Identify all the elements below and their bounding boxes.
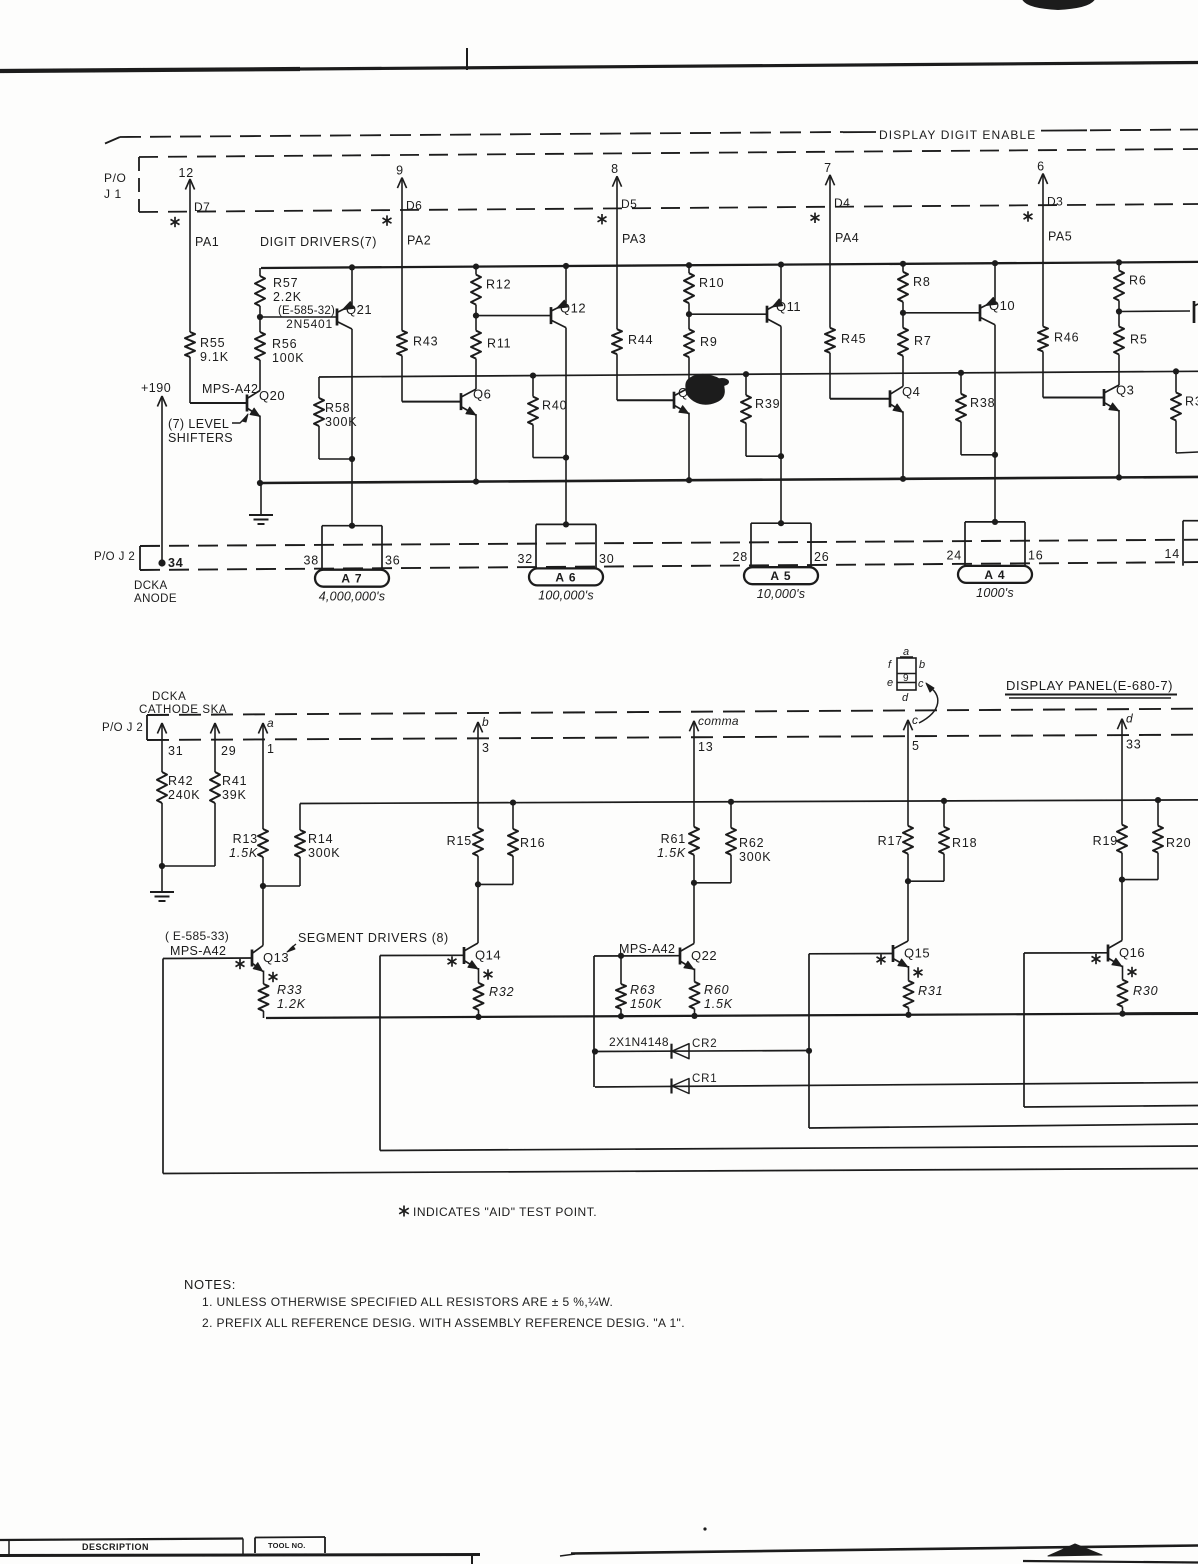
svg-text:100K: 100K	[272, 351, 304, 365]
svg-text:c: c	[912, 713, 918, 727]
svg-text:a: a	[267, 716, 274, 730]
svg-text:33: 33	[1126, 738, 1142, 752]
svg-text:300K: 300K	[739, 850, 771, 864]
svg-text:TOOL NO.: TOOL NO.	[268, 1541, 306, 1550]
svg-text:INDICATES "AID" TEST POINT.: INDICATES "AID" TEST POINT.	[413, 1205, 597, 1219]
svg-text:5: 5	[912, 739, 920, 753]
svg-text:PA3: PA3	[622, 232, 646, 246]
svg-text:36: 36	[385, 553, 401, 567]
svg-text:PA1: PA1	[195, 235, 219, 249]
svg-text:R17: R17	[878, 834, 903, 848]
svg-text:R37: R37	[1185, 395, 1198, 409]
svg-text:R15: R15	[447, 834, 472, 848]
svg-text:P/O J 2: P/O J 2	[102, 722, 143, 734]
svg-text:1: 1	[267, 742, 275, 756]
svg-text:Q4: Q4	[902, 384, 920, 399]
svg-text:13: 13	[698, 740, 714, 754]
svg-text:R56: R56	[272, 337, 297, 351]
svg-text:Q11: Q11	[776, 299, 801, 314]
svg-text:R8: R8	[913, 275, 931, 289]
svg-text:1000's: 1000's	[976, 586, 1014, 600]
svg-text:J 1: J 1	[104, 187, 122, 201]
svg-text:DISPLAY PANEL(E-680-7): DISPLAY PANEL(E-680-7)	[1006, 678, 1173, 693]
svg-text:A 6: A 6	[555, 570, 576, 584]
svg-text:Q13: Q13	[263, 950, 289, 965]
svg-text:P/O J 2: P/O J 2	[94, 551, 135, 563]
svg-text:Q21: Q21	[346, 302, 372, 317]
svg-text:c: c	[918, 678, 924, 690]
svg-text:SHIFTERS: SHIFTERS	[168, 431, 233, 445]
svg-text:R55: R55	[200, 336, 225, 350]
svg-text:R16: R16	[520, 836, 545, 850]
svg-text:7: 7	[824, 161, 832, 175]
svg-text:2X1N4148: 2X1N4148	[609, 1035, 669, 1049]
svg-text:12: 12	[178, 166, 194, 180]
svg-text:D4: D4	[834, 196, 850, 210]
svg-text:34: 34	[168, 556, 184, 570]
svg-text:16: 16	[1028, 549, 1044, 563]
svg-text:SEGMENT DRIVERS (8): SEGMENT DRIVERS (8)	[298, 931, 449, 945]
svg-text:26: 26	[814, 550, 830, 564]
svg-text:Q14: Q14	[475, 948, 501, 963]
svg-text:R20: R20	[1166, 836, 1191, 850]
svg-text:MPS-A42: MPS-A42	[170, 944, 226, 958]
svg-text:R6: R6	[1129, 274, 1147, 288]
svg-text:MPS-A42: MPS-A42	[202, 382, 258, 396]
svg-text:R11: R11	[487, 337, 511, 351]
svg-text:R31: R31	[918, 984, 943, 998]
svg-text:CR1: CR1	[692, 1073, 717, 1085]
svg-text:Q22: Q22	[691, 948, 717, 963]
svg-text:d: d	[1126, 712, 1133, 726]
svg-text:R5: R5	[1130, 333, 1148, 347]
svg-text:D7: D7	[194, 200, 210, 214]
svg-text:9: 9	[903, 673, 909, 684]
svg-text:D6: D6	[406, 199, 422, 213]
svg-text:A 5: A 5	[770, 569, 791, 583]
svg-text:ANODE: ANODE	[134, 593, 177, 605]
svg-text:D5: D5	[621, 197, 637, 211]
svg-text:39K: 39K	[222, 788, 247, 802]
svg-text:2. PREFIX ALL REFERENCE DES: 2. PREFIX ALL REFERENCE DESIG. WITH ASSE…	[202, 1316, 685, 1330]
svg-text:R61: R61	[661, 832, 686, 846]
svg-text:Q12: Q12	[560, 301, 586, 316]
svg-text:R40: R40	[542, 399, 567, 413]
svg-text:R39: R39	[755, 397, 780, 411]
svg-text:CR2: CR2	[692, 1038, 717, 1050]
svg-text:3: 3	[482, 741, 490, 755]
svg-text:R14: R14	[308, 832, 333, 846]
svg-text:1. UNLESS OTHERWISE SPECIFIE: 1. UNLESS OTHERWISE SPECIFIED ALL RESIST…	[202, 1295, 613, 1309]
svg-text:PA5: PA5	[1048, 230, 1072, 244]
svg-text:38: 38	[303, 553, 319, 567]
svg-text:100,000's: 100,000's	[538, 588, 594, 602]
svg-text:(E-585-32): (E-585-32)	[278, 305, 335, 317]
svg-text:(7) LEVEL: (7) LEVEL	[168, 417, 229, 431]
svg-text:4,000,000's: 4,000,000's	[319, 590, 385, 604]
svg-text:D3: D3	[1047, 195, 1063, 209]
svg-text:14: 14	[1164, 547, 1180, 561]
svg-text:Q15: Q15	[904, 946, 930, 961]
svg-text:1.5K: 1.5K	[704, 997, 733, 1011]
svg-text:R10: R10	[699, 276, 724, 290]
svg-text:PA4: PA4	[835, 231, 859, 245]
svg-text:R62: R62	[739, 836, 764, 850]
svg-text:DCKA: DCKA	[152, 691, 186, 703]
svg-text:A 4: A 4	[984, 568, 1005, 582]
svg-text:300K: 300K	[308, 846, 340, 860]
svg-text:8: 8	[611, 162, 619, 176]
svg-text:R43: R43	[413, 335, 438, 349]
svg-text:f: f	[888, 659, 892, 671]
svg-text:e: e	[887, 677, 894, 689]
svg-text:R41: R41	[222, 774, 247, 788]
svg-text:1.5K: 1.5K	[657, 846, 686, 860]
svg-text:240K: 240K	[168, 788, 200, 802]
svg-text:31: 31	[168, 744, 184, 758]
svg-text:DESCRIPTION: DESCRIPTION	[82, 1542, 149, 1552]
svg-text:R9: R9	[700, 335, 718, 349]
svg-text:NOTES:: NOTES:	[184, 1277, 236, 1292]
svg-text:R42: R42	[168, 774, 193, 788]
svg-text:R33: R33	[277, 983, 302, 997]
svg-text:comma: comma	[698, 714, 739, 728]
svg-text:CATHODE SKA: CATHODE SKA	[139, 704, 227, 716]
svg-text:9: 9	[396, 164, 404, 178]
svg-text:R63: R63	[630, 983, 655, 997]
svg-text:R30: R30	[1133, 984, 1158, 998]
svg-text:R18: R18	[952, 836, 977, 850]
svg-text:R32: R32	[489, 985, 514, 999]
svg-text:PA2: PA2	[407, 234, 431, 248]
svg-text:( E-585-33): ( E-585-33)	[165, 929, 229, 943]
svg-text:300K: 300K	[325, 415, 357, 429]
svg-text:24: 24	[946, 549, 962, 563]
svg-text:2N5401: 2N5401	[286, 317, 333, 331]
svg-text:R44: R44	[628, 333, 653, 347]
svg-text:DISPLAY DIGIT ENABLE: DISPLAY DIGIT ENABLE	[879, 128, 1036, 142]
svg-text:Q16: Q16	[1119, 945, 1145, 960]
svg-text:R12: R12	[486, 278, 511, 292]
svg-text:R60: R60	[704, 983, 729, 997]
svg-text:30: 30	[599, 552, 615, 566]
svg-text:Q10: Q10	[989, 298, 1015, 313]
svg-text:R45: R45	[841, 332, 866, 346]
svg-text:28: 28	[732, 550, 748, 564]
svg-text:R13: R13	[233, 832, 258, 846]
svg-text:R57: R57	[273, 276, 298, 290]
svg-text:d: d	[902, 692, 909, 704]
svg-text:R46: R46	[1054, 331, 1079, 345]
svg-text:1.2K: 1.2K	[277, 997, 306, 1011]
svg-text:DCKA: DCKA	[134, 580, 168, 592]
svg-text:10,000's: 10,000's	[757, 587, 805, 601]
svg-text:A 7: A 7	[341, 572, 362, 586]
svg-text:2.2K: 2.2K	[273, 290, 302, 304]
svg-text:MPS-A42: MPS-A42	[619, 942, 675, 956]
svg-text:P/O: P/O	[104, 171, 126, 185]
svg-text:1.5K: 1.5K	[229, 846, 258, 860]
svg-text:+190: +190	[141, 381, 171, 395]
svg-text:R7: R7	[914, 334, 932, 348]
svg-text:Q20: Q20	[259, 388, 285, 403]
svg-text:32: 32	[517, 552, 533, 566]
svg-text:6: 6	[1037, 160, 1045, 174]
svg-text:R58: R58	[325, 401, 350, 415]
svg-text:b: b	[919, 659, 926, 671]
svg-text:R19: R19	[1093, 834, 1118, 848]
svg-text:a: a	[903, 646, 910, 658]
svg-text:DIGIT DRIVERS(7): DIGIT DRIVERS(7)	[260, 235, 377, 249]
svg-text:29: 29	[221, 744, 237, 758]
svg-text:b: b	[482, 715, 489, 729]
svg-text:9.1K: 9.1K	[200, 350, 229, 364]
svg-text:150K: 150K	[630, 997, 662, 1011]
svg-text:R38: R38	[970, 396, 995, 410]
